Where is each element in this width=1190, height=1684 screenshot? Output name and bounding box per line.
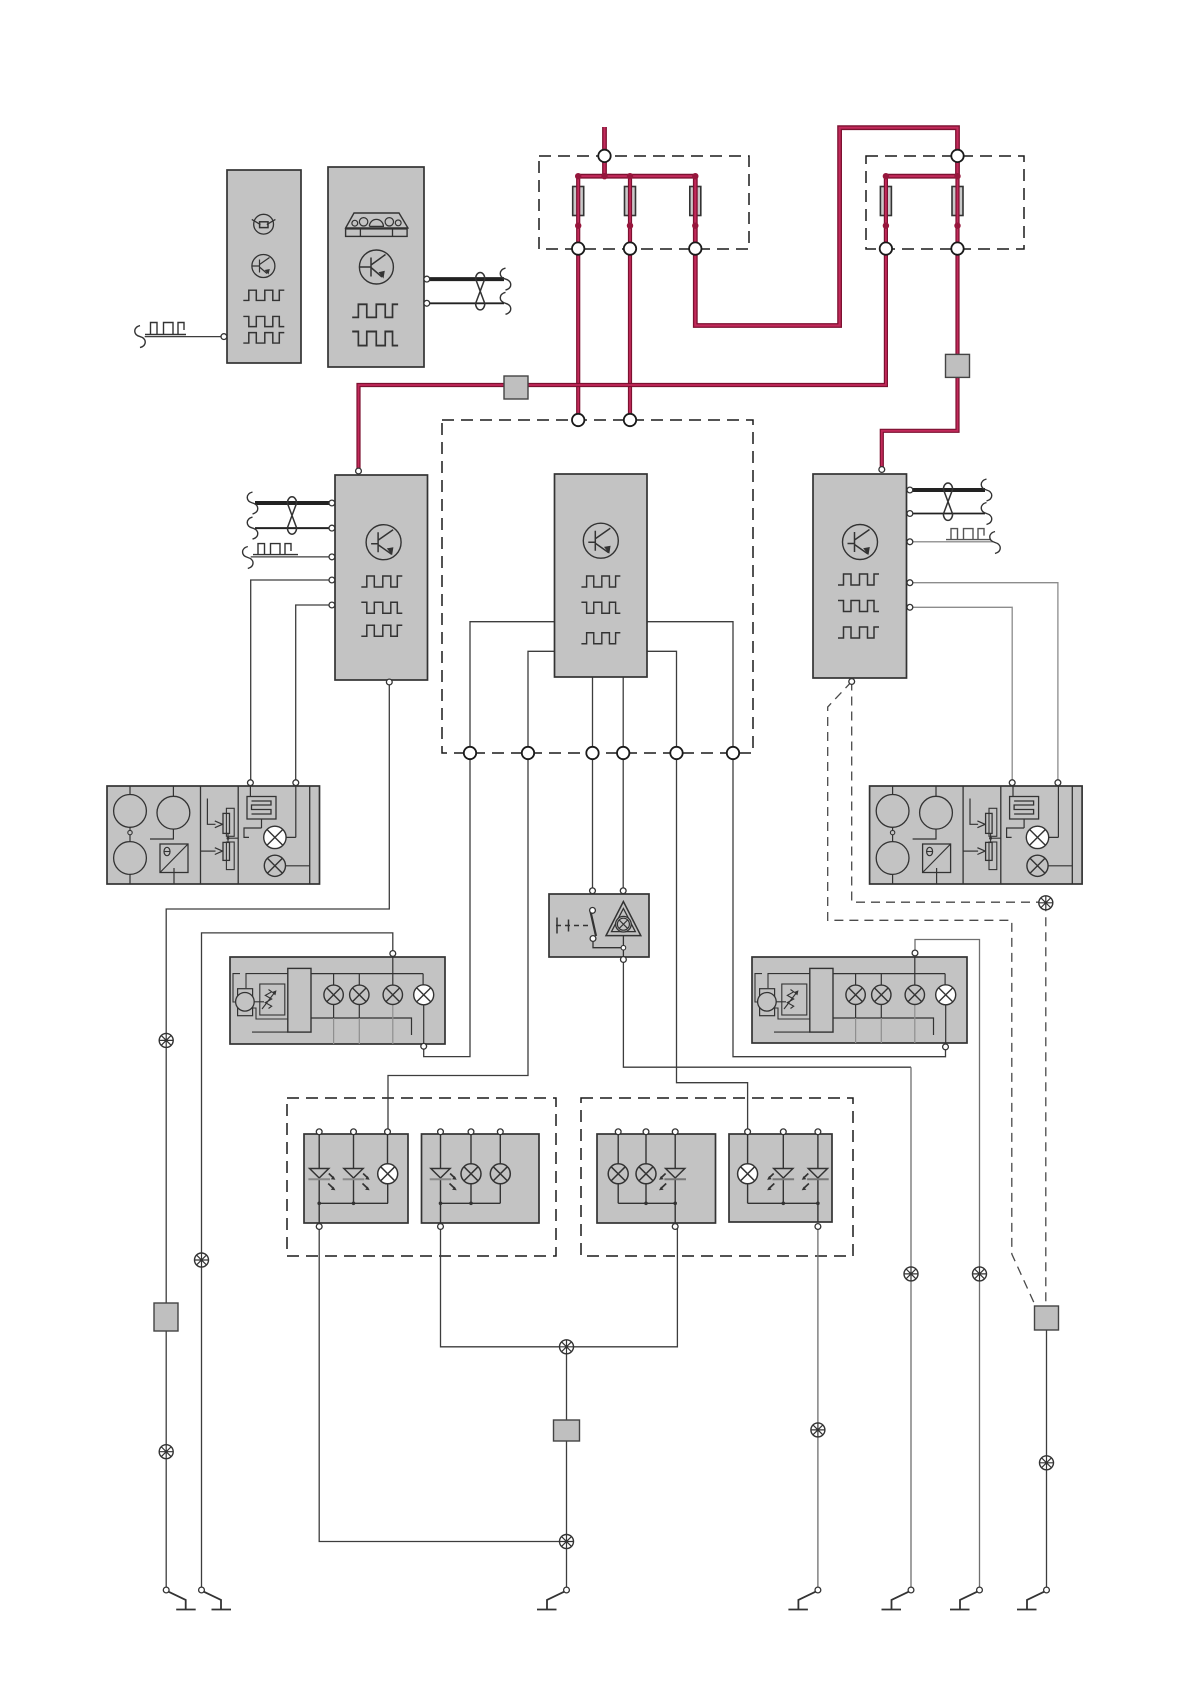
power feed wire 30 (red) into fuse box F-left — [602, 127, 607, 176]
hazard warning switch — [549, 894, 649, 960]
red wire fuse F1 to junction unit node — [576, 176, 580, 420]
signal wire out of right ECU pin3 (light) with square-wave icon — [913, 529, 1001, 554]
twisted-pair bus out of right ECU — [913, 479, 992, 525]
fuse F3 body — [690, 187, 701, 216]
pins: left ECU left side — [329, 500, 335, 608]
node circle under fuse F1 — [572, 242, 584, 254]
twisted-pair bus from instrument cluster — [429, 268, 511, 314]
splice S1 — [159, 1033, 173, 1047]
pin: left ECU supply — [356, 468, 362, 474]
wire: hazard switch bottom pin to ground G5 — [623, 960, 911, 1591]
pins: hazard switch top and bottom — [590, 888, 627, 963]
pins: right ECU right side — [907, 487, 913, 610]
pins: right rear lamp unit — [912, 950, 948, 1050]
pins: front lamp box B — [438, 1129, 504, 1230]
left ECU (door module) — [335, 475, 428, 680]
splice S5 — [560, 1535, 574, 1549]
node circle under fuse F5 — [951, 242, 963, 254]
red bus bar in fuse box F-right — [886, 174, 958, 179]
front lamp assembly right (dashed enclosure) — [581, 1098, 853, 1256]
dashed wire: right ECU ground pin alternate route to connector C5 — [828, 682, 1036, 1307]
connector C5 on right dashed ground wire — [1035, 1306, 1059, 1330]
connector C3 on left ground wire — [154, 1303, 178, 1331]
pin: right ECU supply — [879, 467, 885, 473]
fuse box F-right (dashed enclosure) — [866, 156, 1024, 249]
node circle under fuse F2 — [624, 242, 636, 254]
red junction dots on bus bars and under fuses — [575, 173, 961, 229]
ground G6 — [950, 1587, 982, 1609]
splice S10 on dashed wire — [1039, 896, 1053, 910]
node circle under fuse F3 — [689, 242, 701, 254]
left door mirror unit — [107, 786, 320, 884]
steering wheel module (control unit) — [227, 170, 301, 363]
front lamp box B (turn indicators left 2) — [422, 1134, 540, 1223]
red wire fuse F4 to left ECU supply — [359, 176, 886, 471]
fuse box F-left (dashed enclosure) — [539, 156, 749, 249]
node N1 junction unit bottom — [464, 747, 476, 759]
pins: front lamp box A — [316, 1129, 390, 1230]
red bus bar in fuse box F-left — [578, 174, 695, 179]
fuse F4 body — [880, 187, 891, 216]
red wire fuse F5 to right ECU supply — [882, 176, 958, 469]
node N6 junction unit bottom — [727, 747, 739, 759]
node N5 junction unit bottom — [670, 747, 682, 759]
wire: center ECU bottom pin b through node N4 to hazard switch pin2 — [622, 677, 624, 891]
splice S7 — [904, 1267, 918, 1281]
front lamp box D (turn indicators right) — [729, 1134, 832, 1222]
wire: right ECU pin4 to right mirror unit pin2 — [913, 583, 1058, 783]
square-wave icon on steering module signal wire — [145, 323, 186, 335]
ground G1 — [163, 1587, 195, 1609]
node N2 junction unit bottom — [522, 747, 534, 759]
pins: left mirror unit top — [248, 780, 299, 786]
instrument cluster module (control unit) — [328, 167, 424, 367]
splice S3 — [195, 1253, 209, 1267]
pins: instrument cluster outputs — [424, 276, 430, 306]
pins: left rear lamp unit — [390, 951, 427, 1050]
ground G5 — [882, 1587, 914, 1609]
red wire fuse F2 to junction unit node — [628, 176, 632, 420]
pin: left ECU bottom — [386, 679, 392, 685]
wire: right rear lamp unit top pin to ground G6 — [915, 940, 980, 1591]
connector C4 on center ground wire — [554, 1420, 580, 1441]
wire: left ECU ground pin to ground G1 — [166, 682, 389, 1590]
splice S6 — [811, 1423, 825, 1437]
node circle under fuse F4 — [880, 242, 892, 254]
connector C1 on F4 supply wire — [504, 376, 528, 399]
junction unit (center dashed enclosure) — [442, 420, 753, 753]
pins: front lamp box D — [745, 1129, 821, 1230]
dashed wire: right ECU ground pin to splice S10 and connector C5 — [852, 682, 1046, 1307]
wire: front lamp box B bottom pin to front lamp box C bottom pin — [441, 1227, 678, 1347]
cable-continuation squiggle on steering module signal wire — [135, 326, 146, 348]
node circle junction unit top left — [572, 414, 584, 426]
front lamp box C (turn indicators right 2) — [597, 1134, 716, 1223]
wire: left ECU pin5 to left mirror unit pin2 — [296, 605, 332, 783]
fuse F5 body — [952, 187, 963, 216]
signal wire into steering module — [145, 336, 221, 338]
node N4 junction unit bottom — [617, 747, 629, 759]
node circle at fuse box F-left feed — [598, 150, 610, 162]
signal wire into left ECU pin3 with square-wave icon — [243, 544, 329, 569]
wire: center ECU left lower pin to node N2 — [528, 651, 555, 753]
wire: node N2 to front lamp box A pin3 — [388, 753, 528, 1132]
right ECU (door module) — [813, 474, 907, 678]
wire: connector C5 to ground G7 — [1046, 1330, 1048, 1590]
splice S8 — [973, 1267, 987, 1281]
wire: splice S4 to ground G3 — [566, 1347, 568, 1590]
fuse F1 body — [573, 187, 584, 216]
node circle junction unit top right — [624, 414, 636, 426]
pins: right mirror unit top — [1009, 780, 1061, 786]
left rear lamp unit — [230, 957, 445, 1044]
front lamp box A (turn indicators left) — [304, 1134, 408, 1223]
center ECU (central electronic module) — [555, 474, 648, 677]
wire: front lamp box D bottom pin to ground G4 — [817, 1227, 819, 1591]
wire: center ECU bottom pin a through node N3 to hazard switch pin1 — [592, 677, 594, 891]
node circle at fuse box F-right feed — [951, 150, 963, 162]
pin: right ECU bottom — [849, 679, 855, 685]
ground G3 — [537, 1587, 569, 1609]
wire: left rear lamp unit bottom pin to junction unit node N1 — [424, 753, 470, 1057]
wire: left rear lamp unit top pin to ground G2 — [202, 933, 393, 1590]
wire: center ECU right lower pin to node N5 and front lamp box D pin1 — [647, 651, 748, 1132]
right door mirror unit — [870, 786, 1083, 884]
red wire fuse F3 to fuse box F-right feed — [695, 128, 957, 326]
splice S9 — [1040, 1456, 1054, 1470]
connector C2 on F5 supply wire — [946, 354, 970, 377]
wire: right ECU pin5 to right mirror unit pin1 — [913, 607, 1013, 782]
fuse F2 body — [625, 187, 636, 216]
right rear lamp unit — [752, 957, 967, 1043]
wire: left ECU pin4 to left mirror unit pin1 — [251, 580, 332, 783]
twisted-pair bus into left ECU — [247, 492, 329, 539]
ground G2 — [199, 1587, 231, 1609]
pin: steering module input — [221, 334, 227, 340]
node N3 junction unit bottom — [586, 747, 598, 759]
wire: center ECU left upper pin to node N1 — [470, 622, 555, 753]
splice S2 — [159, 1445, 173, 1459]
ground G7 — [1017, 1587, 1049, 1609]
splice S4 — [560, 1340, 574, 1354]
wire: front lamp box A bottom pin to splice S5 — [319, 1227, 566, 1542]
wire: center ECU right upper pin to node N6 and right rear lamp bottom pin — [647, 622, 946, 1057]
pins: front lamp box C — [615, 1129, 678, 1230]
front lamp assembly left (dashed enclosure) — [287, 1098, 556, 1256]
ground G4 — [788, 1587, 820, 1609]
